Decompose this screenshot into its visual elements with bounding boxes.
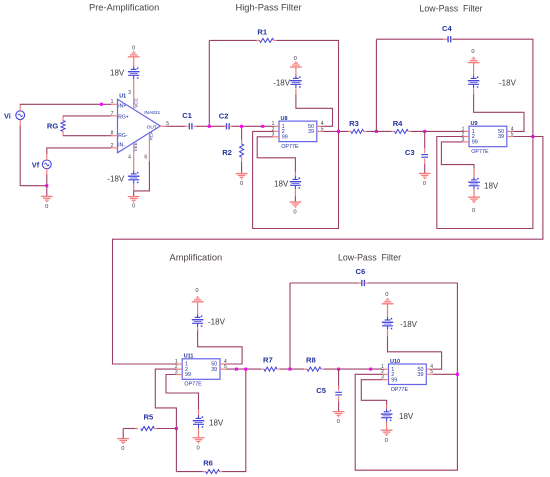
wire R7 left lead [261,368,264,370]
section title Low-Pass Filter (top right) [420,3,483,13]
svg-text:6: 6 [144,154,147,160]
battery -18V for U9 [468,75,517,88]
svg-text:RG-: RG- [118,133,128,139]
svg-text:39: 39 [418,372,424,378]
resistor R4 [393,119,409,133]
battery 18V for U9 [468,177,499,191]
svg-text:C2: C2 [219,112,229,121]
svg-text:U9: U9 [471,121,478,127]
svg-text:0: 0 [385,438,388,444]
battery -18V for U11 [192,314,226,327]
wire R1 left [209,39,259,41]
resistor R6 [203,458,219,473]
wire R3 to R4 [366,130,391,132]
ground 0 left of R5 [117,439,129,452]
battery 18V for U10 [381,409,414,422]
wire R6 right to output node [220,369,246,472]
U11 pin stubs and pin numbers [175,359,227,376]
svg-text:-18V: -18V [499,79,517,88]
wire U9 pin 2 feedback loop [437,137,533,229]
wire Vi top lead [19,104,21,111]
svg-text:OP77E: OP77E [471,149,489,155]
svg-text:0: 0 [132,203,135,209]
wire Vi bottom to ground node [20,126,47,186]
wire R1 right to output node [274,40,339,131]
svg-text:C6: C6 [356,267,366,276]
ground 0 below -18V battery [128,197,140,210]
node U9 output junction [531,135,534,138]
svg-text:Pre-Amplification: Pre-Amplification [89,3,159,13]
ground 0 below C5 [333,412,345,426]
wire C2 to U8 pin 1 [232,125,272,127]
svg-text:-18V: -18V [273,79,291,88]
capacitor C4 [442,24,452,42]
wire Vf bottom to ground node [46,175,48,186]
svg-text:0: 0 [132,45,135,51]
wire U9 output pin 5 [513,136,533,138]
wire U8 pin 2 feedback loop [253,131,339,228]
svg-text:0: 0 [337,419,340,425]
svg-text:39: 39 [498,134,504,140]
ground 0 below R2 [236,174,248,187]
svg-text:18V: 18V [209,419,224,428]
capacitor C2 [219,112,229,130]
svg-text:R1: R1 [257,27,267,36]
op-amp U8 OP77E [279,116,317,150]
svg-text:99: 99 [185,372,191,378]
svg-text:U8: U8 [281,116,288,122]
wire R8 right lead [321,368,324,370]
wire U1 REF pin 6 to ground node [134,133,150,191]
svg-text:R6: R6 [203,458,213,467]
svg-text:Low-Pass Filter: Low-Pass Filter [420,3,483,13]
wire U11 pin 4 to -18V battery [198,327,243,364]
node R3/R4 junction (C4 tap) [375,130,378,133]
svg-text:U11: U11 [184,354,194,360]
svg-text:0: 0 [293,210,296,216]
wire C5 bottom to ground [338,396,340,411]
wire Vf to U1 IN- (pin 2) [47,148,112,154]
node before U8 pin 1 [261,125,264,128]
svg-text:0: 0 [196,445,199,451]
svg-text:U1: U1 [119,93,126,99]
battery V2 -18V [107,171,139,184]
svg-text:INA821: INA821 [144,110,160,116]
op-amp U11 OP77E [182,354,220,388]
svg-text:R5: R5 [144,413,154,422]
wire C3 bottom to ground [424,159,426,174]
ground 0 above 18V battery [128,45,140,56]
node before U10 pin 1 [369,368,372,371]
battery -18V for U8 [273,75,302,88]
node R5/R6/U11 pin2 junction [175,427,178,430]
wire 18V battery to ground (U8) [294,189,296,202]
svg-text:U10: U10 [390,359,400,365]
node U8 output junction [337,130,340,133]
voltage source Vi [4,111,25,121]
svg-text:R8: R8 [306,355,316,364]
wire Vf bottom lead [46,169,48,176]
wire R7 to R8 [280,368,304,370]
wire 18V battery top to ground [133,57,135,66]
wire RG top to U1 RG+ (pin 7) [63,115,111,117]
svg-text:0: 0 [294,56,297,62]
wire R2 bottom to ground [241,157,243,173]
resistor R1 [257,27,273,42]
ground 0 above U9 -18V battery [468,49,480,62]
U1 left pin stubs [111,104,117,148]
wire R3 right lead [364,130,367,132]
wire U10 pin 2 feedback loop [355,374,457,470]
wire R8 left lead [304,368,307,370]
wire U11 output pin 5 to R7 [226,368,261,370]
wire -18V battery top to ground (U9) [473,63,475,76]
section title Low-Pass Filter (bottom) [338,252,401,262]
wire U11 pin 3 to 18V battery [166,375,199,416]
wire U9 pin 3 to 18V battery [441,142,474,177]
wire Vi bottom lead [19,120,21,127]
node U10 output junction [456,373,459,376]
U8 pin stubs and pin numbers [272,121,324,138]
resistor RG [47,120,65,131]
ground 0 above U10 -18V battery [382,292,394,304]
wire R8 to U10 pin 1 [324,368,382,370]
svg-text:0: 0 [195,288,198,294]
wire -18V battery top to ground (U10) [387,304,389,317]
node C5 tap [337,368,340,371]
wire 18V battery to ground (U9) [473,190,475,197]
svg-text:39: 39 [308,129,314,135]
ground 0 below U10 18V battery [381,430,393,444]
wire R4 to U9 pin 1 [411,130,463,132]
wire C4 right to U9 output node [451,39,533,136]
svg-text:IN-: IN- [118,143,125,149]
wire U11 pin 2 to R5/R6 node [155,369,176,428]
node on U11 output [235,368,238,371]
node R2 top junction [240,125,243,128]
wire R4 right lead [408,130,411,132]
ground 0 below U11 18V battery [193,438,205,452]
svg-text:1: 1 [111,99,114,105]
wire 18V battery to ground (U10) [386,422,388,430]
capacitor C3 [405,148,428,157]
svg-text:99: 99 [282,135,288,141]
wire RG bottom to U1 RG- (pin 8) [63,135,111,137]
svg-text:4: 4 [128,154,131,160]
U9 pin stubs and pin numbers [462,126,514,143]
wire U1 OUT pin 5 to C1 [160,125,188,127]
svg-text:RG+: RG+ [118,115,129,121]
battery 18V for U11 [193,415,224,428]
svg-text:3: 3 [128,90,131,96]
wire U1 VCC pin 3 to 18V battery [133,79,135,109]
wire C2 leads [223,125,232,127]
svg-text:2: 2 [111,143,114,149]
ground 0 above U8 -18V battery [290,56,302,67]
battery 18V for U8 [274,176,301,189]
resistor R5 [141,413,155,431]
svg-text:RG: RG [47,122,58,131]
svg-text:R4: R4 [393,119,403,128]
wire -18V battery top to ground (U8) [295,67,297,75]
wire R3 left lead [348,130,351,132]
wire C4 left [376,38,448,40]
svg-text:C1: C1 [182,111,192,120]
wire -18V battery bottom to ground node [133,184,135,197]
wire RG top lead [62,116,64,121]
battery V1 18V [110,66,140,79]
node R6 feedback junction [244,368,247,371]
svg-text:18V: 18V [110,69,125,78]
svg-text:OP77E: OP77E [184,382,202,388]
op-amp U1 INA821 triangle [118,93,161,152]
wire R5 ground stem [122,429,124,439]
section title High-Pass Filter (top) [236,3,302,13]
wire 18V battery to ground (U11) [198,428,200,437]
wire C6 right to U10 output node [365,283,458,374]
wire U8 output pin 5 to R3 [323,130,348,132]
svg-text:Vf: Vf [32,161,40,170]
op-amp U9 OP77E [469,121,507,155]
resistor R8 [306,355,321,371]
wire C3 top [424,131,426,153]
wire Vi to U1 IN+ (pin 1) [20,103,111,106]
svg-text:C4: C4 [442,24,452,33]
svg-text:0: 0 [423,181,426,187]
node A (C1/C2/R1 junction) [208,125,211,128]
wire R7 right lead [277,368,280,370]
wire U10 pin 4 to -18V battery [388,330,442,369]
svg-text:IN+: IN+ [118,104,126,110]
resistor R3 [349,119,364,133]
wire R5 left lead [123,428,138,430]
svg-text:OP77E: OP77E [281,144,299,150]
wire RG bottom lead [62,131,64,136]
U10 pin stubs and pin numbers [381,364,433,381]
ground 0 below U9 18V battery [468,197,480,214]
svg-text:7: 7 [111,111,114,117]
wire U1 VEE pin 4 to -18V battery [133,143,135,171]
wire U9 pin 4 to -18V battery [474,89,524,132]
svg-text:R3: R3 [349,119,359,128]
svg-text:R7: R7 [263,355,273,364]
ground 0 below Vi/Vf [41,196,53,210]
svg-text:-18V: -18V [107,174,125,183]
wire C1 to node A [193,125,226,127]
wire R4 left lead [392,130,395,132]
node on Vi wire [100,103,103,106]
svg-text:39: 39 [211,367,217,373]
svg-text:-18V: -18V [208,318,226,327]
wire C6 tap up [289,283,291,369]
wire node A up to R1 [208,40,210,126]
U1 pin numbers [111,90,170,160]
svg-text:18V: 18V [399,412,414,421]
capacitor C5 [316,386,342,395]
svg-text:R2: R2 [222,148,232,157]
wire C4 tap up [375,39,377,131]
wire R2 top lead [241,126,243,144]
svg-text:OP77E: OP77E [391,387,409,393]
svg-text:C5: C5 [316,386,326,395]
node Vi/Vf ground junction [45,184,48,187]
ground 0 below U8 18V battery [290,202,302,216]
svg-text:Low-Pass Filter: Low-Pass Filter [338,252,401,262]
wire U10 pin 3 to 18V battery [361,380,386,409]
wire U8 pin 3 to 18V battery [257,137,295,177]
resistor R2 [222,144,243,157]
svg-text:0: 0 [385,292,388,298]
svg-text:0: 0 [121,446,124,452]
ground 0 below C3 [419,173,431,187]
svg-text:99: 99 [391,377,397,383]
svg-text:18V: 18V [274,180,289,189]
capacitor C6 [356,267,366,286]
wire node down to R6 [175,429,177,472]
section title Pre-Amplification [89,3,159,13]
svg-text:0: 0 [472,208,475,214]
svg-text:OUT: OUT [147,124,157,130]
voltage source Vf [32,160,51,170]
section title Amplification [170,252,223,262]
wire -18V battery top to ground (U11) [197,302,199,314]
svg-text:-18V: -18V [400,320,418,329]
capacitor C1 [182,111,192,129]
battery -18V for U10 [382,317,418,330]
svg-text:99: 99 [472,140,478,146]
ground 0 above U11 -18V battery [192,288,204,302]
svg-text:Vi: Vi [4,111,11,120]
svg-text:0: 0 [471,49,474,55]
wire C6 left [290,282,362,284]
svg-text:Amplification: Amplification [170,252,223,262]
wire R6 left lead [176,471,205,473]
node R7/R8 junction (C6 tap) [289,368,292,371]
wire C5 top [338,369,340,391]
svg-text:0: 0 [45,204,48,210]
wire ground stem [46,186,48,197]
wire U8 pin 4 to -18V battery [296,89,333,127]
wire Vf top lead [46,153,48,160]
svg-text:8: 8 [111,131,114,137]
op-amp U10 OP77E [389,359,427,393]
resistor R7 [263,355,277,371]
svg-text:18V: 18V [484,181,499,190]
svg-text:0: 0 [240,181,243,187]
node C3 tap [423,130,426,133]
svg-text:C3: C3 [405,148,415,157]
wire R5 right lead [154,428,176,430]
svg-text:High-Pass Filter: High-Pass Filter [236,3,302,13]
wire U10 output pin 5 [433,373,458,375]
wire U9 output to second row (long interconnect) [113,137,543,365]
